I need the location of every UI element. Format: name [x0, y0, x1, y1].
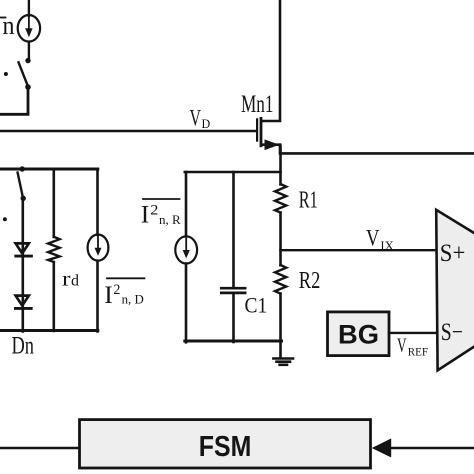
svg-text:D: D [202, 116, 211, 131]
svg-text:S−: S− [441, 319, 463, 346]
label VIX [366, 226, 394, 254]
wire (In to switch) [28, 42, 30, 59]
svg-text:d: d [71, 272, 79, 289]
wire (Mn1 source down to R1) [279, 146, 282, 184]
svg-text:R1: R1 [299, 187, 318, 213]
wire with arrow into FSM right side [372, 438, 474, 457]
resistor R1 [275, 184, 286, 213]
current source I2nR [175, 236, 197, 263]
svg-text:C1: C1 [245, 292, 268, 317]
wire (I2nD branch bottom) [96, 261, 99, 332]
svg-text:S+: S+ [440, 240, 466, 267]
svg-text:I: I [141, 201, 150, 228]
node dot (switch S1 bottom) [25, 84, 31, 90]
wire (middle subcircuit top rail) [185, 171, 281, 174]
svg-text:n, D: n, D [122, 292, 144, 307]
label VREF [397, 335, 428, 359]
diode D2 [15, 296, 31, 309]
wire (R2 to ground) [279, 294, 282, 358]
wire (Dn subcircuit bottom rail) [0, 329, 98, 332]
svg-text:V: V [190, 106, 202, 131]
wire (middle subcircuit bottom rail) [185, 340, 282, 343]
svg-text:Mn1: Mn1 [241, 91, 274, 118]
svg-text:n: n [3, 11, 15, 40]
wire (C1 branch top) [232, 172, 235, 287]
svg-text:V: V [366, 226, 380, 251]
current source I2nD [88, 235, 109, 261]
resistor R2 [275, 265, 286, 294]
label In (overline fragment, cut off at left edge) [0, 11, 15, 40]
current source In [18, 15, 40, 42]
svg-text:R2: R2 [299, 268, 321, 294]
block BG [328, 312, 390, 356]
transistor Mn1 [257, 0, 280, 150]
node dot (switch S2 top) [20, 166, 25, 171]
svg-text:REF: REF [408, 344, 429, 358]
svg-text:IX: IX [380, 238, 394, 253]
switch S2 open contact dot [3, 217, 7, 221]
wire VREF (BG to comparator S-) [389, 332, 437, 334]
wire node VIX to comparator S+ [281, 249, 438, 251]
svg-text:r: r [62, 268, 71, 290]
node VD wire [0, 130, 256, 133]
wire (switch S1 down and left to edge) [0, 90, 28, 115]
svg-text:2: 2 [150, 202, 158, 218]
wire (Dn subcircuit top rail) [0, 168, 98, 171]
svg-text:Dn: Dn [12, 332, 35, 359]
wire (Mn1 source to right edge) [280, 145, 474, 154]
wire (rd branch bottom) [52, 262, 55, 331]
svg-text:FSM: FSM [199, 431, 252, 463]
svg-text:V: V [397, 335, 407, 357]
resistor rd [48, 237, 60, 262]
svg-text:2: 2 [113, 282, 120, 298]
comparator (S+ / S- block, clipped at right edge) [436, 210, 474, 371]
wire (left edge into FSM) [0, 447, 80, 449]
ground [273, 359, 293, 365]
svg-text:I: I [104, 282, 113, 309]
label I2nD [104, 282, 144, 309]
diode D1 [16, 243, 32, 256]
label VD [190, 106, 211, 132]
wire (top feed into In) [28, 0, 30, 16]
label rd [62, 268, 79, 290]
svg-text:n, R: n, R [159, 212, 181, 227]
node dot (switch S2 bottom) [21, 196, 26, 201]
switch S2 blade [18, 173, 23, 197]
wire (I2nR branch top) [185, 172, 188, 236]
wire (R1 to R2) [279, 213, 282, 266]
label I2nR [141, 201, 181, 228]
node dot (switch S1 top) [25, 58, 30, 63]
capacitor C1 [221, 288, 245, 293]
wire (I2nR branch bottom) [185, 264, 188, 343]
block FSM [80, 420, 371, 468]
switch S1 blade [19, 62, 28, 86]
wire (rd branch top) [52, 170, 55, 237]
wire (C1 branch bottom) [232, 294, 235, 342]
wire (switch S2 through diodes to bottom rail) [21, 201, 24, 332]
switch S1 open contact dot [4, 72, 8, 76]
wire (I2nD branch top) [96, 169, 99, 235]
svg-text:BG: BG [338, 319, 379, 349]
